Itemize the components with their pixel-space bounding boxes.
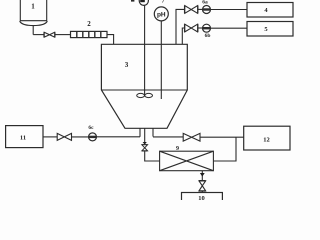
wire drain valve to exchanger 9 bbox=[145, 151, 160, 161]
reactor tank 3 cone joint line bbox=[101, 89, 187, 91]
wire left header to pump 6c bbox=[97, 136, 141, 138]
wire pump 6a to box 4 bbox=[211, 9, 248, 11]
pH probe stem bbox=[160, 21, 162, 99]
valve (vertical, drain) bbox=[142, 145, 148, 151]
svg-text:6a: 6a bbox=[202, 0, 208, 6]
svg-text:6c: 6c bbox=[88, 125, 94, 131]
svg-text:6b: 6b bbox=[205, 33, 211, 39]
cone outlet left stub bbox=[139, 128, 141, 137]
wire pump 6b to box 5 bbox=[211, 27, 248, 29]
svg-text:2: 2 bbox=[87, 20, 91, 28]
wire tank1 outlet down bbox=[32, 25, 34, 34]
wire valve to box 11 bbox=[43, 136, 57, 138]
tiny mark left of motor bbox=[131, 0, 134, 2]
arrow down below exchanger bbox=[200, 173, 205, 177]
svg-text:1: 1 bbox=[31, 3, 35, 11]
box 10 bbox=[182, 193, 223, 202]
pump 6c bbox=[89, 133, 97, 141]
cone outlet right stub bbox=[152, 128, 154, 136]
wire feeder 2 to reactor top bbox=[107, 35, 114, 45]
wire valve to feeder 2 bbox=[55, 34, 71, 36]
box 4 bbox=[247, 3, 293, 18]
svg-text:10: 10 bbox=[198, 195, 205, 200]
valve V1 (between tank 1 and feeder 2) bbox=[44, 32, 55, 37]
wire valve to pump 6a bbox=[198, 8, 203, 10]
agitator impeller bbox=[137, 93, 153, 97]
box 5 bbox=[247, 22, 293, 37]
valve on line 6a bbox=[185, 6, 198, 14]
box 11 bbox=[6, 126, 43, 148]
svg-text:9: 9 bbox=[176, 146, 179, 152]
pump 6a bbox=[203, 6, 211, 14]
svg-text:11: 11 bbox=[20, 135, 26, 142]
wire riser to line 6a bbox=[176, 9, 185, 44]
screw feeder 2 bbox=[71, 31, 108, 37]
svg-text:3: 3 bbox=[125, 61, 129, 69]
pH meter 7 bbox=[154, 7, 168, 21]
wire riser to line 6b bbox=[182, 28, 185, 44]
motor label M bbox=[140, 0, 145, 2]
svg-text:12: 12 bbox=[263, 136, 270, 143]
svg-text:7: 7 bbox=[162, 0, 165, 5]
agitator motor M bbox=[139, 0, 148, 5]
wire exchanger 9 bottom outlet bbox=[201, 171, 203, 181]
wire tank1 to valve bbox=[33, 34, 44, 36]
agitator shaft bbox=[144, 5, 146, 96]
wire valve to box 10 bbox=[201, 191, 203, 193]
pump 6b bbox=[203, 24, 211, 32]
wire exchanger 9 to riser bbox=[213, 137, 236, 161]
wire valve to pump 6b bbox=[198, 27, 203, 29]
wire valve to box 12 bbox=[200, 136, 244, 138]
svg-text:pH: pH bbox=[157, 11, 166, 18]
wire right header to valve 8 bbox=[153, 136, 183, 138]
wire pump 6c to valve bbox=[72, 136, 89, 138]
valve on line 6b bbox=[185, 24, 198, 32]
reactor tank 3 body bbox=[101, 44, 187, 128]
valve (line 11) bbox=[57, 133, 71, 140]
valve 8 (horizontal, to box 12) bbox=[183, 133, 200, 141]
cone drain center bbox=[144, 128, 146, 143]
tank 1 (feed hopper) bbox=[20, 0, 48, 26]
valve (vertical, above box 10) bbox=[199, 181, 206, 191]
heat exchanger 9 bbox=[160, 151, 214, 171]
box 12 bbox=[244, 126, 290, 150]
arrow down on drain bbox=[143, 142, 147, 145]
